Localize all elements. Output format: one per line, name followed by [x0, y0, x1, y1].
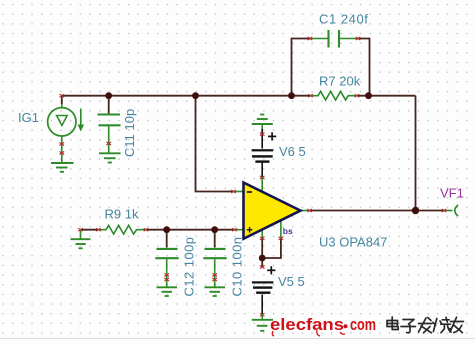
capacitor C1 — [310, 30, 358, 48]
watermark chinese characters dian zi fa shao you — [387, 317, 464, 333]
junction at C10 top — [211, 226, 218, 233]
pin mark ground under C10 — [212, 278, 217, 281]
svg-text:C11 10p: C11 10p — [122, 109, 137, 157]
label C11 10p — [122, 109, 137, 157]
svg-text:C12 100p: C12 100p — [182, 237, 197, 297]
resistor R9 — [98, 225, 146, 234]
pin mark C10 bottom — [212, 274, 217, 277]
ground left of R9 — [71, 230, 91, 249]
wire: V6 bottom to op-amp VCC pin — [261, 163, 263, 178]
plus sign V5 — [267, 266, 275, 274]
wire: ground to R9 left pin — [81, 229, 99, 231]
ground under V5 — [252, 315, 273, 331]
wire: inverting input branch — [196, 96, 234, 192]
battery V5 — [252, 281, 273, 294]
pin mark ground stub left of R9 — [78, 228, 83, 231]
label V6 5 — [279, 144, 306, 159]
label C10 100n — [230, 237, 245, 297]
pin mark R9 left — [96, 228, 101, 231]
wire: IG1 top riser — [61, 96, 63, 104]
pin mark op-amp inverting input — [231, 190, 236, 193]
ground under C10 — [205, 287, 226, 296]
wire: C10 top lead — [214, 230, 216, 248]
junction at C12 top — [163, 226, 170, 233]
pin mark op-amp VEE left — [260, 237, 265, 240]
label R9 1k — [105, 207, 139, 222]
current source IG1 — [48, 104, 84, 163]
battery V6 — [252, 149, 274, 163]
pin labels bs — [283, 226, 293, 236]
wire: op-amp second bottom pin bend to junction — [262, 238, 281, 258]
pin mark C1 left — [308, 37, 313, 40]
pin mark ground under IG1 — [60, 152, 65, 155]
watermark elecfans.com logo — [270, 316, 376, 336]
svg-text:IG1: IG1 — [18, 110, 39, 125]
pin mark R7 right — [355, 94, 360, 97]
ground under IG1 — [51, 163, 74, 172]
node VF1 output port — [444, 205, 458, 216]
junction at inverting branch — [192, 92, 199, 99]
svg-text:com: com — [350, 316, 376, 334]
pin mark V5 bottom — [260, 313, 265, 316]
svg-text:R7 20k: R7 20k — [319, 74, 361, 89]
svg-text:V5 5: V5 5 — [278, 274, 305, 289]
pin mark V5 top — [260, 266, 265, 269]
wire: right vertical drop to output node — [415, 96, 417, 211]
pin mark IG1 top — [60, 94, 65, 97]
junction at C11 top — [105, 92, 112, 99]
capacitor C12 — [155, 249, 178, 287]
svg-text:C10 100n: C10 100n — [230, 237, 245, 297]
wire: R9 right pin to op-amp + input — [146, 229, 235, 231]
ground above V6 (flipped) — [252, 115, 273, 130]
wire: main top net from IG1 to R7 left pin — [61, 95, 311, 97]
pin mark IG1 bottom — [60, 143, 65, 146]
wire: C1 left branch riser — [292, 39, 311, 96]
label R7 20k — [319, 74, 361, 89]
label U3 OPA847 — [319, 235, 387, 250]
svg-text:elecfans: elecfans — [270, 316, 344, 334]
wire: R7 right pin to right corner — [357, 95, 416, 97]
pin mark V6 bottom / op-amp VCC — [260, 176, 265, 179]
pin mark VF1 — [442, 209, 447, 212]
wire: op-amp VEE pin down to V5 junction — [261, 238, 263, 267]
pin mark C1 right — [356, 37, 361, 40]
svg-text:R9 1k: R9 1k — [105, 207, 139, 222]
svg-text:U3 OPA847: U3 OPA847 — [319, 235, 387, 250]
junction at R7/C1 right — [365, 92, 372, 99]
wire: V6 top from ground — [261, 128, 263, 149]
wire: C12 top lead — [166, 230, 168, 248]
svg-text:C1 240f: C1 240f — [319, 12, 368, 27]
pin mark R7 left — [308, 94, 313, 97]
junction at output node — [412, 207, 419, 214]
pin mark op-amp output — [307, 209, 312, 212]
wire: output net to VF1 — [310, 210, 445, 212]
plus sign V6 — [268, 132, 276, 140]
label IG1 — [18, 110, 39, 125]
wire: V5 bottom to ground — [261, 295, 263, 315]
label V5 5 — [278, 274, 305, 289]
svg-text:bs: bs — [283, 226, 293, 236]
wire: C1 right branch drop — [358, 39, 370, 96]
capacitor C10 — [203, 249, 226, 287]
pin mark op-amp non-inverting input — [232, 228, 237, 231]
capacitor C11 — [98, 115, 121, 154]
svg-text:V6 5: V6 5 — [279, 144, 306, 159]
pin mark ground under C12 — [164, 278, 169, 281]
ground under C11 — [99, 153, 121, 162]
pin mark C12 bottom — [164, 274, 169, 277]
pin mark V6 top — [260, 133, 265, 136]
pin mark op-amp VEE right — [279, 237, 284, 240]
label C1 240f — [319, 12, 368, 27]
junction at V5 top — [259, 255, 266, 262]
ground under C12 — [157, 287, 178, 296]
junction at R7/C1 left — [288, 92, 295, 99]
wire: C11 top lead — [108, 96, 110, 114]
label C12 100p — [182, 237, 197, 297]
svg-text:VF1: VF1 — [440, 186, 464, 201]
op-amp U3 — [234, 178, 310, 239]
label VF1 — [440, 186, 464, 201]
pin mark C11 bottom — [106, 142, 111, 145]
resistor R7 — [311, 91, 358, 100]
pin mark R9 right — [144, 228, 149, 231]
